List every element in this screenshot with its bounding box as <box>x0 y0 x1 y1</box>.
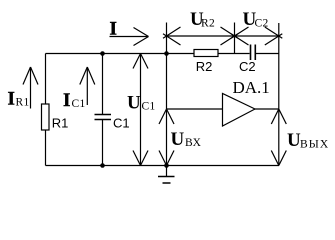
op-amp DA.1 triangle <box>223 94 256 127</box>
arrow IC1 <box>80 67 95 105</box>
svg-text:C2: C2 <box>255 18 269 30</box>
svg-text:C2: C2 <box>239 59 256 74</box>
svg-text:DA.1: DA.1 <box>233 78 270 97</box>
svg-text:U: U <box>171 129 185 150</box>
svg-text:C1: C1 <box>72 98 86 110</box>
svg-text:R2: R2 <box>196 59 213 74</box>
svg-text:C1: C1 <box>142 101 156 113</box>
arrow UVYH arrowheads on right line <box>271 109 286 166</box>
wire C1 branch below C1 <box>102 120 104 166</box>
capacitor C1 plates <box>95 115 112 120</box>
arrow UBX arrowheads on node line <box>159 109 174 166</box>
arrowhead pair at middle tick (UR2 right + UC2 left) <box>221 27 249 45</box>
wire bottom horizontal <box>46 165 280 167</box>
wire node line x=166.5 from top tick to bottom <box>166 23 168 166</box>
svg-text:R1: R1 <box>52 115 69 130</box>
arrow UC1 double vertical <box>133 54 148 166</box>
svg-text:R1: R1 <box>16 97 30 109</box>
svg-text:ВЫХ: ВЫХ <box>300 139 329 151</box>
arrowhead left at node tick (UR2 left) <box>163 27 181 45</box>
resistor R2 <box>194 50 218 57</box>
arrow IR1 <box>23 67 38 109</box>
node dot bottom C1 <box>100 163 105 168</box>
wire left branch below R1 <box>45 130 47 166</box>
svg-text:I: I <box>63 90 70 111</box>
ground <box>158 166 175 184</box>
capacitor C2 plates <box>251 45 256 61</box>
svg-text:R2: R2 <box>201 18 215 30</box>
svg-text:U: U <box>127 93 141 114</box>
svg-text:U: U <box>287 130 301 151</box>
svg-text:ВХ: ВХ <box>185 137 202 149</box>
wire left branch above R1 <box>45 54 47 105</box>
wire top horizontal between R2 and C2 <box>218 53 250 55</box>
arrowhead right at right line (UC2 right) <box>265 27 283 45</box>
wire top horizontal right of C2 <box>256 53 279 55</box>
node dot top C1 <box>100 51 105 56</box>
dimension line UR2/UC2 <box>167 35 279 37</box>
svg-text:C1: C1 <box>113 115 130 130</box>
svg-text:I: I <box>8 89 15 110</box>
svg-text:I: I <box>110 19 117 40</box>
node dot bottom node line <box>164 163 169 168</box>
wire C1 branch above C1 <box>102 54 104 115</box>
tick between UR2 and UC2 <box>234 23 236 54</box>
wire right vertical line <box>278 23 280 166</box>
node dot top node line <box>164 51 169 56</box>
arrow I (top current arrow) <box>110 28 149 46</box>
wire top horizontal left segment <box>46 53 195 55</box>
wire op-amp output <box>255 108 279 110</box>
resistor R1 <box>42 104 50 130</box>
wire op-amp input <box>167 108 223 110</box>
